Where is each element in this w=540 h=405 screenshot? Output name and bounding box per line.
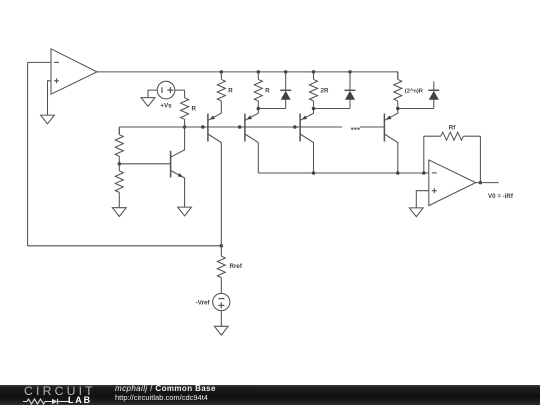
node top bus S1 [220, 70, 224, 74]
CircuitLab logo [24, 384, 96, 398]
resistor Rref [217, 246, 225, 288]
resistor 2R stage 3 [310, 72, 318, 109]
ellipsis dots [351, 128, 359, 130]
diode D3 [428, 81, 439, 108]
diode D2 [345, 72, 356, 109]
transistor Q bias (NPN) [171, 127, 185, 207]
ground under U2 [409, 208, 423, 217]
wire top bus (U1 output) [97, 72, 398, 79]
node emitter stage 4 [396, 107, 400, 111]
ground under Vref [214, 326, 228, 335]
wire divider top bend [118, 127, 120, 134]
wire base bus right segment [360, 126, 384, 128]
ground under Q bias [178, 207, 192, 216]
svg-text:Rf: Rf [449, 124, 456, 131]
svg-text:2R: 2R [321, 88, 329, 95]
wire Rf left vertical [423, 136, 425, 173]
node collector Q4 [396, 171, 400, 175]
transistor Q1 (PNP) stage 1 [208, 109, 221, 246]
resistor R (bias) [181, 90, 189, 127]
wire U1 + input to ground [48, 81, 52, 115]
resistor (2^n)R stage 4 [394, 72, 402, 109]
label R (bias) [192, 106, 197, 113]
node divider mid [118, 162, 122, 166]
resistor R divider upper [115, 127, 123, 164]
voltage source -Vref [213, 293, 230, 310]
svg-text:V0 = -iRf: V0 = -iRf [488, 193, 514, 200]
resistor R divider lower [115, 164, 123, 200]
node base bus Q1 [201, 125, 205, 129]
ground under divider [112, 208, 126, 217]
svg-text:Rref: Rref [230, 263, 243, 270]
wire Rref to Vref [220, 288, 222, 294]
node base bus Q3 [293, 125, 297, 129]
node top bus S2 [257, 70, 261, 74]
label (2^n)R stage 4 [405, 89, 424, 95]
label 2R stage 3 [321, 88, 329, 95]
node emitter stage 2 [257, 107, 261, 111]
wire collector bus [258, 172, 429, 174]
wire feedback bottom horizontal [28, 245, 222, 247]
node feedback/Rref junction [220, 244, 224, 248]
node top bus S3 [312, 70, 316, 74]
node collector Q3 [312, 171, 316, 175]
wire V1 left to ground [148, 90, 157, 98]
label +Vs [160, 102, 172, 109]
wire V1 right to R bias [175, 89, 185, 91]
wire D3 to stage node [398, 108, 434, 110]
svg-text:+Vs: +Vs [160, 102, 172, 109]
resistor R stage 1 [217, 72, 225, 109]
wire divider to ground [118, 200, 120, 208]
node emitter stage 3 [312, 107, 316, 111]
wire U2 + input to ground [416, 191, 429, 208]
wire Rf right vertical [479, 136, 481, 182]
wire Vref to ground [220, 310, 222, 326]
ground at V1 [141, 98, 155, 107]
svg-text:R: R [192, 106, 197, 113]
label -Vref [196, 300, 211, 307]
op-amp U2 [429, 160, 476, 206]
wire feedback left vertical [27, 62, 29, 245]
node base bus Q2 [238, 125, 242, 129]
wire U1 - input lead [28, 61, 51, 63]
svg-text:R: R [228, 88, 233, 95]
wire U2 output [476, 182, 499, 184]
label V0 = -iRf [488, 193, 514, 200]
label R stage 1 [228, 88, 233, 95]
voltage source V1 +Vs [157, 81, 175, 99]
op-amp U1 [51, 49, 97, 94]
node U2 output [479, 181, 483, 185]
node top bus D1 [284, 70, 288, 74]
node collector/Rf junction [422, 171, 426, 175]
diode D1 [280, 72, 291, 109]
wire divider node to Q bias base [119, 163, 170, 165]
wire base bus left segment [119, 126, 342, 128]
transistor Q4 (PNP) stage 4 [384, 109, 397, 174]
svg-text:R: R [265, 88, 270, 95]
resistor R stage 2 [254, 72, 262, 109]
transistor Q2 (PNP) stage 2 [245, 109, 258, 174]
label Rref [230, 263, 243, 270]
label Rf [449, 124, 456, 131]
node top bus D2 [348, 70, 352, 74]
wire D2 to stage node [314, 108, 351, 110]
node R bias / base bus [183, 125, 187, 129]
wire D1 to stage node [258, 108, 285, 110]
svg-text:(2^n)R: (2^n)R [405, 89, 424, 95]
svg-text:-Vref: -Vref [196, 300, 211, 307]
ground under U1 [41, 115, 55, 124]
label R stage 2 [265, 88, 270, 95]
transistor Q3 (PNP) stage 3 [300, 109, 313, 174]
resistor Rf [424, 132, 481, 140]
